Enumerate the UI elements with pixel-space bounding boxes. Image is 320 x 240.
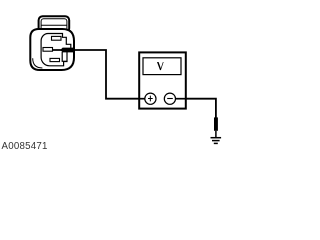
figure label A0085471	[2, 141, 48, 152]
ground symbol line 1	[211, 137, 222, 139]
wire: probe lead to voltmeter positive	[53, 50, 145, 99]
connector lock tab band line	[42, 24, 67, 26]
terminal slot bottom	[50, 58, 60, 61]
terminal slot middle (probed)	[43, 48, 53, 52]
connector face outline	[41, 34, 71, 66]
connector face channel line	[62, 52, 67, 61]
connector lock tab outer	[39, 16, 70, 32]
wire stub into voltmeter (left)	[139, 98, 145, 100]
wire: voltmeter negative to ground probe	[176, 99, 216, 118]
plus sign	[148, 96, 153, 102]
test probe tip (black)	[60, 48, 74, 53]
wire: ground probe to ground	[215, 131, 217, 138]
ground probe tip (black)	[214, 117, 218, 130]
wire stub into voltmeter (right)	[176, 98, 186, 100]
terminal slot top	[52, 36, 62, 40]
minus sign	[167, 98, 173, 100]
ground symbol line 2	[212, 140, 220, 142]
connector lock tab inner	[41, 19, 67, 33]
voltmeter negative jack	[164, 93, 175, 104]
voltmeter body	[139, 52, 186, 108]
voltmeter positive jack	[145, 93, 156, 104]
voltmeter display	[143, 58, 181, 75]
voltmeter V glyph	[157, 62, 164, 70]
connector body seam arc (bottom-left)	[33, 58, 43, 68]
connector body C115	[30, 29, 74, 70]
ground symbol line 3	[214, 142, 218, 144]
